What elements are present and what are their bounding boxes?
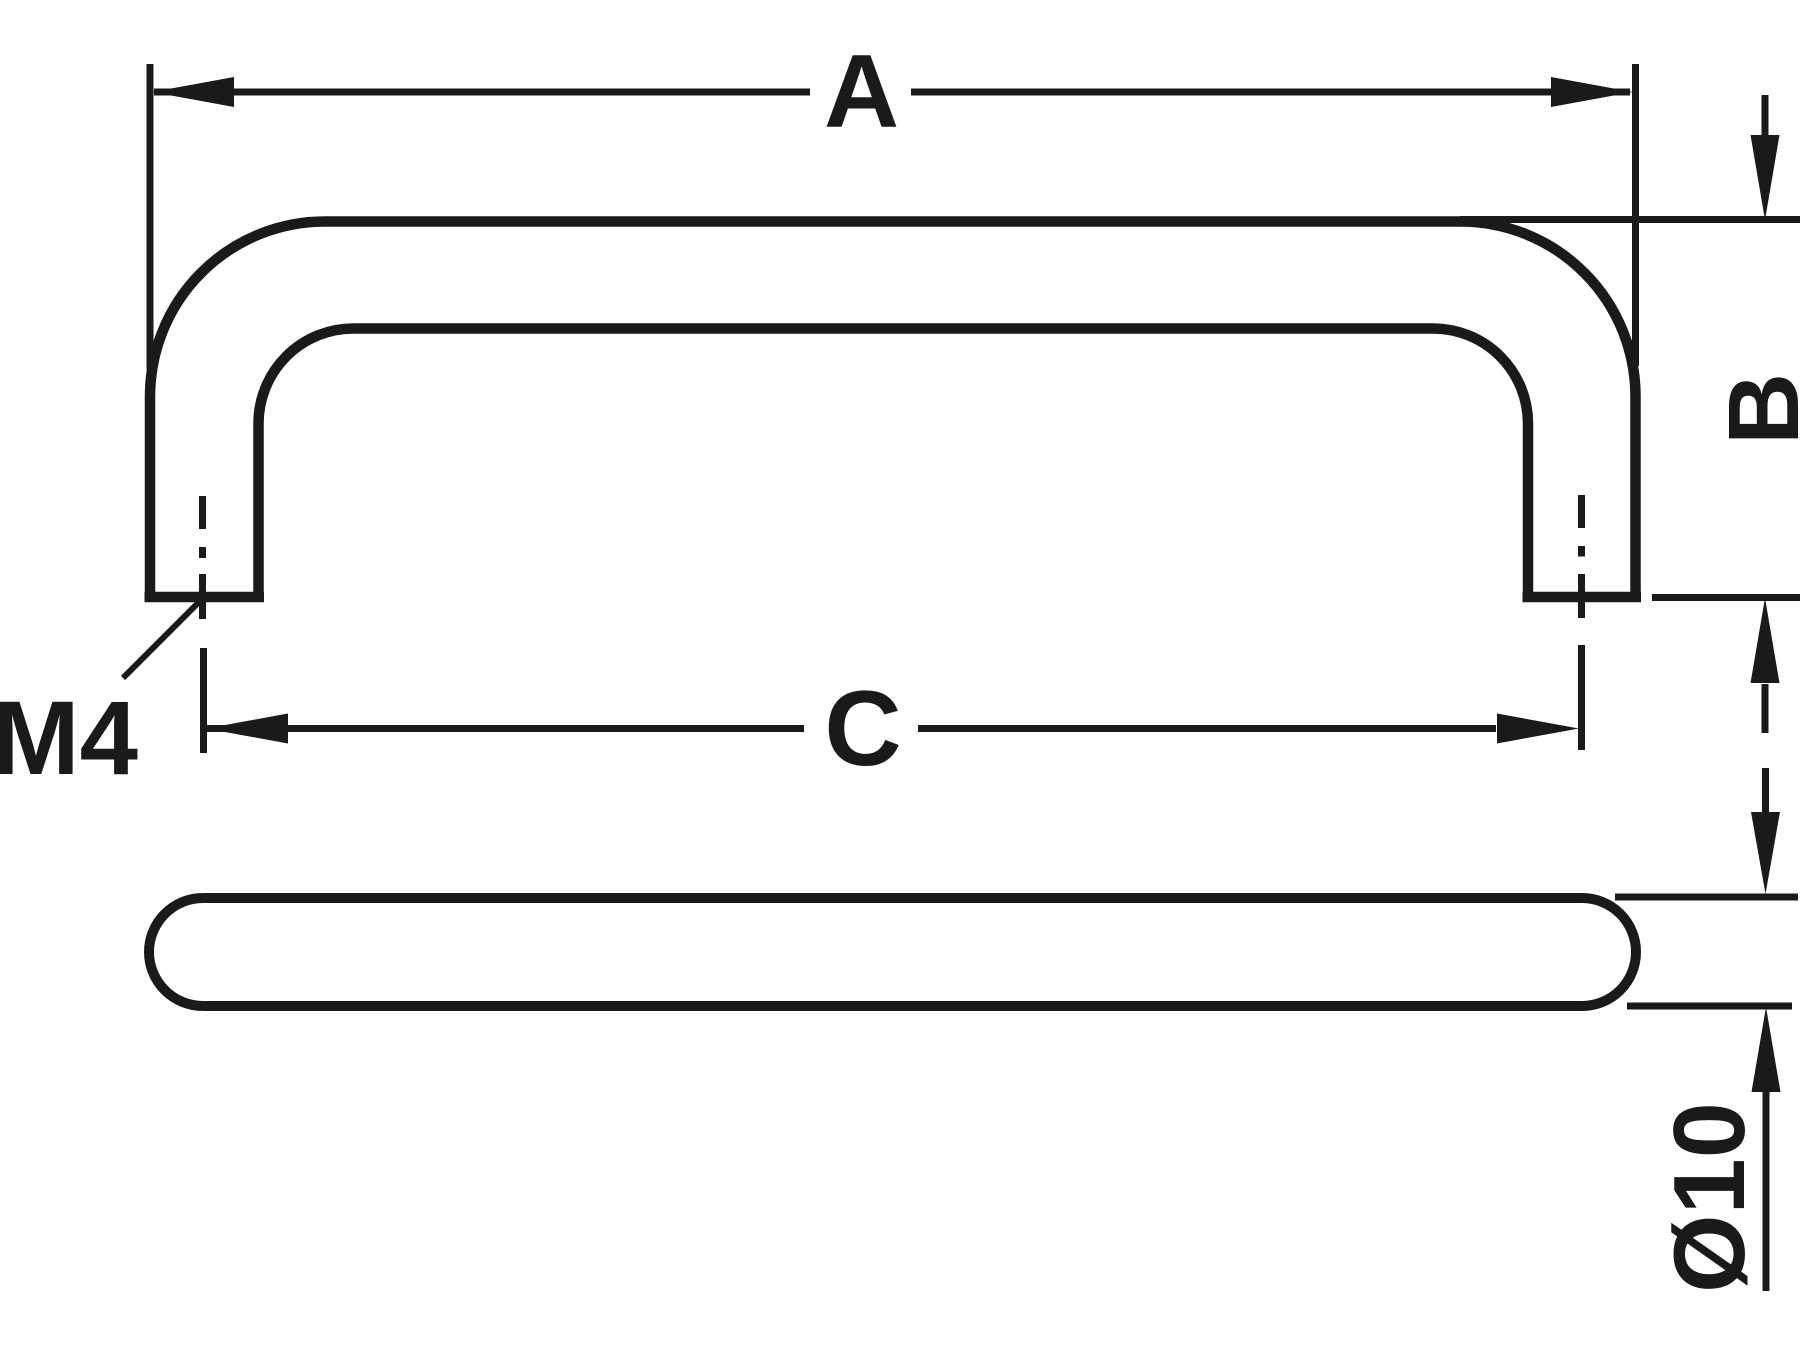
arrowhead diameter (up to stadium bottom)	[1752, 1007, 1781, 1092]
arrowhead B bottom (up)	[1751, 598, 1780, 683]
handle inner contour (top view)	[259, 329, 1529, 600]
extension line C left	[200, 648, 207, 753]
centerline left leg (dash-dot)	[199, 496, 206, 619]
B upper arrow shaft	[1762, 95, 1769, 140]
arrowhead B top (down)	[1751, 135, 1780, 220]
dimension line A right segment	[911, 89, 1630, 96]
svg-text:B: B	[1708, 373, 1800, 445]
dimension line C left segment	[207, 725, 804, 732]
extension line C right	[1578, 645, 1585, 750]
leader line M4	[123, 600, 201, 678]
arrowhead gap (down to side view)	[1751, 812, 1780, 894]
arrowhead A left	[152, 77, 234, 107]
reference line diameter top	[1615, 894, 1798, 901]
centerline right leg (dash-dot)	[1578, 495, 1585, 618]
extension line A right	[1632, 64, 1639, 366]
handle right leg bottom cap	[1523, 592, 1642, 603]
svg-text:Ø10: Ø10	[1654, 1102, 1766, 1293]
dimension line C right segment	[918, 725, 1496, 732]
svg-text:C: C	[824, 668, 901, 788]
B lower arrow shaft	[1762, 684, 1769, 733]
reference line B bottom	[1652, 594, 1800, 601]
reference line B top	[1460, 216, 1800, 223]
handle left leg bottom cap	[145, 592, 265, 603]
arrowhead A right	[1551, 77, 1633, 107]
side view stadium profile	[149, 898, 1636, 1006]
handle outer contour (top view)	[150, 222, 1636, 600]
arrowhead C right	[1497, 714, 1579, 744]
dimension line A left segment	[154, 89, 810, 96]
svg-text:A: A	[824, 34, 899, 150]
reference line diameter bottom	[1627, 1003, 1792, 1010]
extension line A left	[147, 64, 154, 369]
gap dimension arrow shaft (to side view)	[1762, 768, 1769, 813]
diameter arrow shaft	[1763, 1092, 1770, 1291]
arrowhead C left	[206, 714, 288, 744]
svg-text:M4: M4	[0, 680, 138, 797]
